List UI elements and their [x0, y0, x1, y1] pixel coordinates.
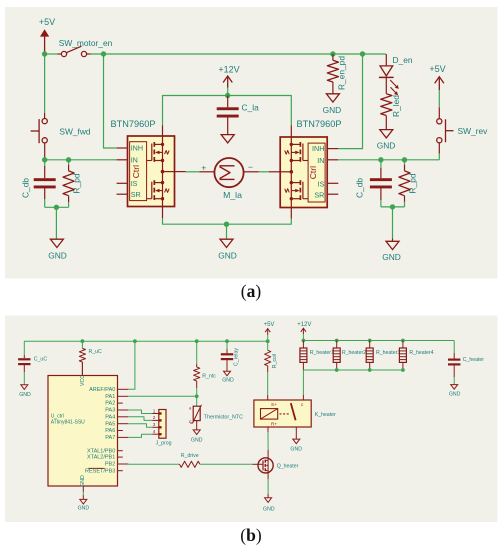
- wire: [338, 154, 439, 160]
- svg-text:PA3: PA3: [105, 408, 115, 414]
- pin PB2: [118, 463, 129, 465]
- wire: [128, 395, 196, 397]
- wire: [128, 341, 135, 389]
- junction: [42, 157, 47, 162]
- pin VS: [290, 126, 292, 138]
- wire: [44, 54, 46, 119]
- svg-text:R_heater4: R_heater4: [409, 350, 433, 356]
- pin PA6: [118, 430, 123, 432]
- resistor R_uC: [79, 341, 102, 375]
- wire: [338, 54, 362, 149]
- wire: [128, 434, 152, 437]
- junction: [101, 51, 106, 56]
- pin AREF/PA0: [118, 388, 129, 390]
- junction: [195, 394, 199, 398]
- svg-text:M_la: M_la: [223, 190, 242, 200]
- svg-text:PA7: PA7: [105, 435, 115, 441]
- junction: [225, 339, 229, 343]
- svg-text:GND: GND: [78, 505, 90, 511]
- label (b): [240, 525, 262, 545]
- connector J_prog: [152, 408, 171, 446]
- svg-text:S+: S+: [271, 402, 277, 407]
- wire: [163, 218, 292, 224]
- junction: [266, 339, 270, 343]
- transistor low-side: [147, 180, 170, 200]
- svg-text:1: 1: [153, 408, 156, 413]
- resistor R_en_pd: [327, 54, 346, 94]
- junction: [225, 93, 230, 98]
- svg-text:IS: IS: [318, 180, 325, 189]
- wire: [280, 137, 293, 208]
- label (a): [241, 281, 262, 301]
- IC U_ctrl ATtiny841: [48, 375, 118, 487]
- pin SR: [327, 193, 338, 195]
- svg-text:SW_fwd: SW_fwd: [59, 126, 91, 136]
- svg-text:C_db: C_db: [355, 178, 365, 198]
- pin IS: [327, 182, 338, 184]
- ground: [191, 430, 203, 444]
- svg-text:+5V: +5V: [264, 322, 275, 328]
- wire: [128, 417, 152, 421]
- wire: [163, 96, 292, 126]
- svg-text:GND: GND: [222, 378, 234, 384]
- wire: [303, 340, 454, 342]
- svg-text:+: +: [201, 162, 206, 172]
- ground: [19, 385, 31, 398]
- junction: [195, 339, 199, 343]
- junction: [360, 51, 365, 56]
- wire: [186, 171, 200, 173]
- pin PA5: [118, 423, 129, 425]
- ground: [290, 439, 302, 453]
- wire: [104, 54, 117, 148]
- svg-text:R_heater3: R_heater3: [376, 350, 400, 356]
- switch SW_fwd: [31, 119, 91, 160]
- motor M_la: [200, 158, 259, 200]
- junction: [133, 339, 137, 343]
- svg-text:ATtiny841-SSU: ATtiny841-SSU: [51, 420, 85, 426]
- power +5V: [429, 64, 445, 118]
- junction: [378, 157, 383, 162]
- pin OUT: [269, 171, 280, 173]
- svg-text:(b): (b): [240, 525, 262, 545]
- junction: [402, 157, 407, 162]
- pin VS: [162, 126, 164, 137]
- svg-text:C_uC: C_uC: [34, 357, 48, 363]
- capacitor C_uC: [18, 355, 47, 385]
- svg-text:PA4: PA4: [105, 414, 115, 420]
- svg-text:R_coil: R_coil: [272, 354, 278, 368]
- pin IN: [327, 159, 338, 161]
- svg-text:BTN7960P: BTN7960P: [297, 119, 342, 129]
- svg-text:GND: GND: [323, 105, 342, 115]
- svg-text:XTAL1/PB0: XTAL1/PB0: [87, 448, 115, 454]
- capacitor C_heater: [448, 341, 484, 385]
- junction: [54, 205, 59, 210]
- svg-text:GND: GND: [290, 447, 302, 453]
- svg-text:R+: R+: [271, 422, 277, 427]
- pin PA4: [118, 416, 129, 418]
- svg-text:PB2: PB2: [105, 462, 115, 468]
- svg-text:U_ctrl: U_ctrl: [51, 413, 64, 419]
- svg-text:VCC: VCC: [80, 375, 86, 386]
- junction: [224, 222, 229, 227]
- svg-text:+5V: +5V: [39, 17, 55, 27]
- pin PA1: [118, 395, 129, 397]
- junction: [368, 339, 372, 343]
- resistor R_drive: [128, 453, 252, 467]
- svg-text:D_en: D_en: [393, 55, 413, 65]
- wire: [128, 424, 152, 428]
- svg-text:IN: IN: [317, 156, 324, 165]
- wire: [392, 207, 394, 241]
- power +12V: [297, 322, 311, 341]
- pin INH: [117, 147, 128, 149]
- capacitor C_la: [217, 96, 259, 135]
- pin IS: [117, 182, 128, 184]
- IC U2 BTN7960P: [280, 119, 341, 208]
- switch SW_motor_en: [59, 38, 113, 56]
- svg-text:+5V: +5V: [429, 64, 445, 74]
- wire: [303, 370, 403, 400]
- resistor R_heater1: [300, 341, 334, 371]
- svg-text:R_uC: R_uC: [89, 349, 103, 355]
- ground: [78, 499, 90, 511]
- wire: [267, 479, 269, 498]
- power +12V: [218, 64, 239, 95]
- ground: [323, 94, 342, 115]
- wire: [161, 136, 175, 207]
- wire: [259, 171, 269, 173]
- svg-text:RESET/PB3: RESET/PB3: [85, 468, 115, 474]
- junction: [401, 368, 405, 372]
- svg-text:Ctrl: Ctrl: [131, 165, 141, 178]
- wire: [45, 53, 61, 55]
- svg-text:SW_motor_en: SW_motor_en: [59, 38, 113, 48]
- wire: [55, 207, 57, 239]
- svg-text:t°: t°: [189, 419, 192, 424]
- junction: [335, 368, 339, 372]
- wire: [295, 427, 297, 439]
- svg-text:GND: GND: [19, 392, 31, 398]
- svg-text:C_heater: C_heater: [463, 357, 485, 363]
- ground: [221, 135, 234, 143]
- resistor R_heater3: [366, 341, 400, 371]
- svg-text:GND: GND: [382, 252, 401, 262]
- svg-text:R_en_pd: R_en_pd: [337, 56, 347, 90]
- ground: [218, 239, 237, 260]
- junction: [42, 51, 47, 56]
- junction: [302, 339, 306, 343]
- transistor high-side: [285, 142, 308, 162]
- svg-text:2: 2: [153, 415, 156, 420]
- svg-text:Q_heater: Q_heater: [277, 463, 299, 469]
- wire: [87, 53, 386, 55]
- junction: [330, 51, 335, 56]
- transistor Q_heater: [253, 450, 299, 479]
- wire: [45, 206, 69, 208]
- svg-text:R_drive: R_drive: [181, 453, 199, 459]
- svg-text:4: 4: [153, 429, 156, 434]
- pin GND: [290, 208, 292, 219]
- svg-text:BTN7960P: BTN7960P: [111, 119, 156, 129]
- ground: [263, 498, 275, 513]
- wire: [381, 206, 405, 208]
- svg-text:IN: IN: [131, 155, 138, 164]
- junction: [401, 339, 405, 343]
- wire: [128, 410, 152, 414]
- svg-text:INH: INH: [131, 144, 143, 153]
- pin PA3: [118, 409, 129, 411]
- svg-text:PA2: PA2: [105, 401, 115, 407]
- junction: [368, 368, 372, 372]
- pin SR: [117, 193, 128, 195]
- svg-text:Ctrl: Ctrl: [308, 166, 318, 179]
- power +5V: [264, 322, 275, 341]
- svg-text:GND: GND: [48, 251, 67, 261]
- pin XTAL1/PB0: [118, 450, 123, 452]
- svg-text:GND: GND: [191, 437, 203, 443]
- svg-text:K_heater: K_heater: [315, 412, 336, 418]
- svg-text:(a): (a): [241, 281, 262, 301]
- ground: [377, 130, 396, 151]
- svg-text:SW_rev: SW_rev: [458, 126, 489, 136]
- ground: [449, 385, 461, 398]
- wire: [24, 341, 267, 355]
- junction: [81, 339, 85, 343]
- svg-text:GND: GND: [449, 392, 461, 398]
- svg-text:GND: GND: [263, 506, 275, 512]
- wire: [226, 224, 228, 239]
- pin GND: [162, 207, 164, 219]
- junction: [66, 157, 71, 162]
- svg-text:C_db: C_db: [21, 178, 31, 198]
- svg-text:−: −: [248, 162, 253, 172]
- svg-text:GND: GND: [80, 475, 86, 487]
- svg-text:XTAL2/PB1: XTAL2/PB1: [87, 455, 115, 461]
- thermistor Thermistor_NTC: [189, 396, 243, 429]
- resistor R_coil: [265, 341, 278, 400]
- svg-text:GND: GND: [377, 141, 396, 151]
- led D_en: [379, 54, 413, 95]
- relay K_heater: [254, 400, 336, 427]
- pin PA2: [118, 402, 123, 404]
- capacitor C_db: [355, 160, 392, 207]
- pin OUT: [175, 171, 186, 173]
- svg-text:PA5: PA5: [105, 421, 115, 427]
- svg-text:PA1: PA1: [105, 394, 115, 400]
- wire: [267, 427, 269, 450]
- transistor high-side: [147, 142, 170, 162]
- svg-text:R_ntc: R_ntc: [202, 374, 216, 380]
- svg-text:J_prog: J_prog: [156, 441, 172, 447]
- wire: [45, 159, 117, 161]
- pin RESET/PB3: [118, 470, 123, 472]
- svg-text:C_relay: C_relay: [234, 348, 240, 366]
- svg-text:INH: INH: [312, 144, 324, 153]
- capacitor C_db: [21, 160, 56, 208]
- resistor R_pd: [63, 160, 82, 208]
- svg-text:Thermistor_NTC: Thermistor_NTC: [204, 414, 243, 420]
- resistor R_ntc: [194, 341, 217, 396]
- svg-text:R_heater2: R_heater2: [342, 350, 366, 356]
- pin XTAL2/PB1: [118, 456, 123, 458]
- switch SW_rev: [437, 119, 488, 154]
- svg-text:3: 3: [153, 422, 156, 427]
- resistor R_led: [381, 94, 401, 130]
- ground: [382, 241, 401, 261]
- resistor R_heater4: [399, 341, 433, 371]
- pin GND: [82, 486, 84, 499]
- junction: [335, 339, 339, 343]
- resistor R_heater2: [333, 341, 366, 371]
- svg-text:SR: SR: [314, 190, 324, 199]
- pin IN: [117, 159, 128, 161]
- transistor low-side: [285, 180, 308, 200]
- ground: [48, 239, 67, 260]
- IC U1 BTN7960P: [111, 119, 175, 207]
- svg-text:IS: IS: [131, 179, 138, 188]
- svg-text:PA6: PA6: [105, 428, 115, 434]
- junction: [390, 204, 395, 209]
- ground: [222, 371, 234, 383]
- pin VCC: [81, 362, 83, 376]
- svg-text:+12V: +12V: [297, 322, 311, 328]
- resistor R_pd: [399, 160, 418, 207]
- svg-text:R_led: R_led: [391, 95, 401, 117]
- svg-text:+12V: +12V: [218, 64, 239, 74]
- pin INH: [327, 148, 338, 150]
- capacitor C_relay: [221, 341, 240, 371]
- svg-text:AREF/PA0: AREF/PA0: [89, 387, 115, 393]
- svg-text:R_heater1: R_heater1: [310, 350, 334, 356]
- power +5V: [39, 17, 55, 54]
- pin PA7: [118, 436, 129, 438]
- svg-text:SR: SR: [131, 190, 141, 199]
- svg-text:C_la: C_la: [242, 103, 260, 113]
- svg-text:GND: GND: [218, 251, 237, 261]
